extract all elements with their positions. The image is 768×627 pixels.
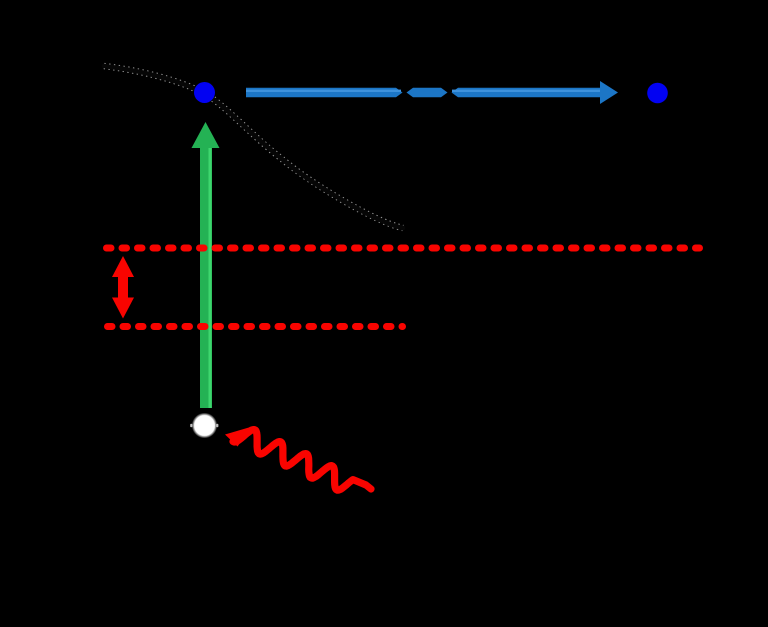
level gap double arrow — [112, 256, 134, 319]
electron final (blue dot) — [647, 83, 668, 104]
blue transport arrow (dashed, to the right) — [246, 81, 618, 104]
hole (white dot) — [190, 413, 218, 439]
band curve (black with faint halo) — [104, 66, 403, 228]
upper defect level (red dashed) — [107, 245, 700, 252]
electron initial (blue dot) — [194, 82, 215, 103]
green excitation arrow — [192, 122, 220, 408]
lower defect level (red dashed) — [108, 323, 403, 330]
photon squiggle arrow (red) — [225, 427, 371, 490]
